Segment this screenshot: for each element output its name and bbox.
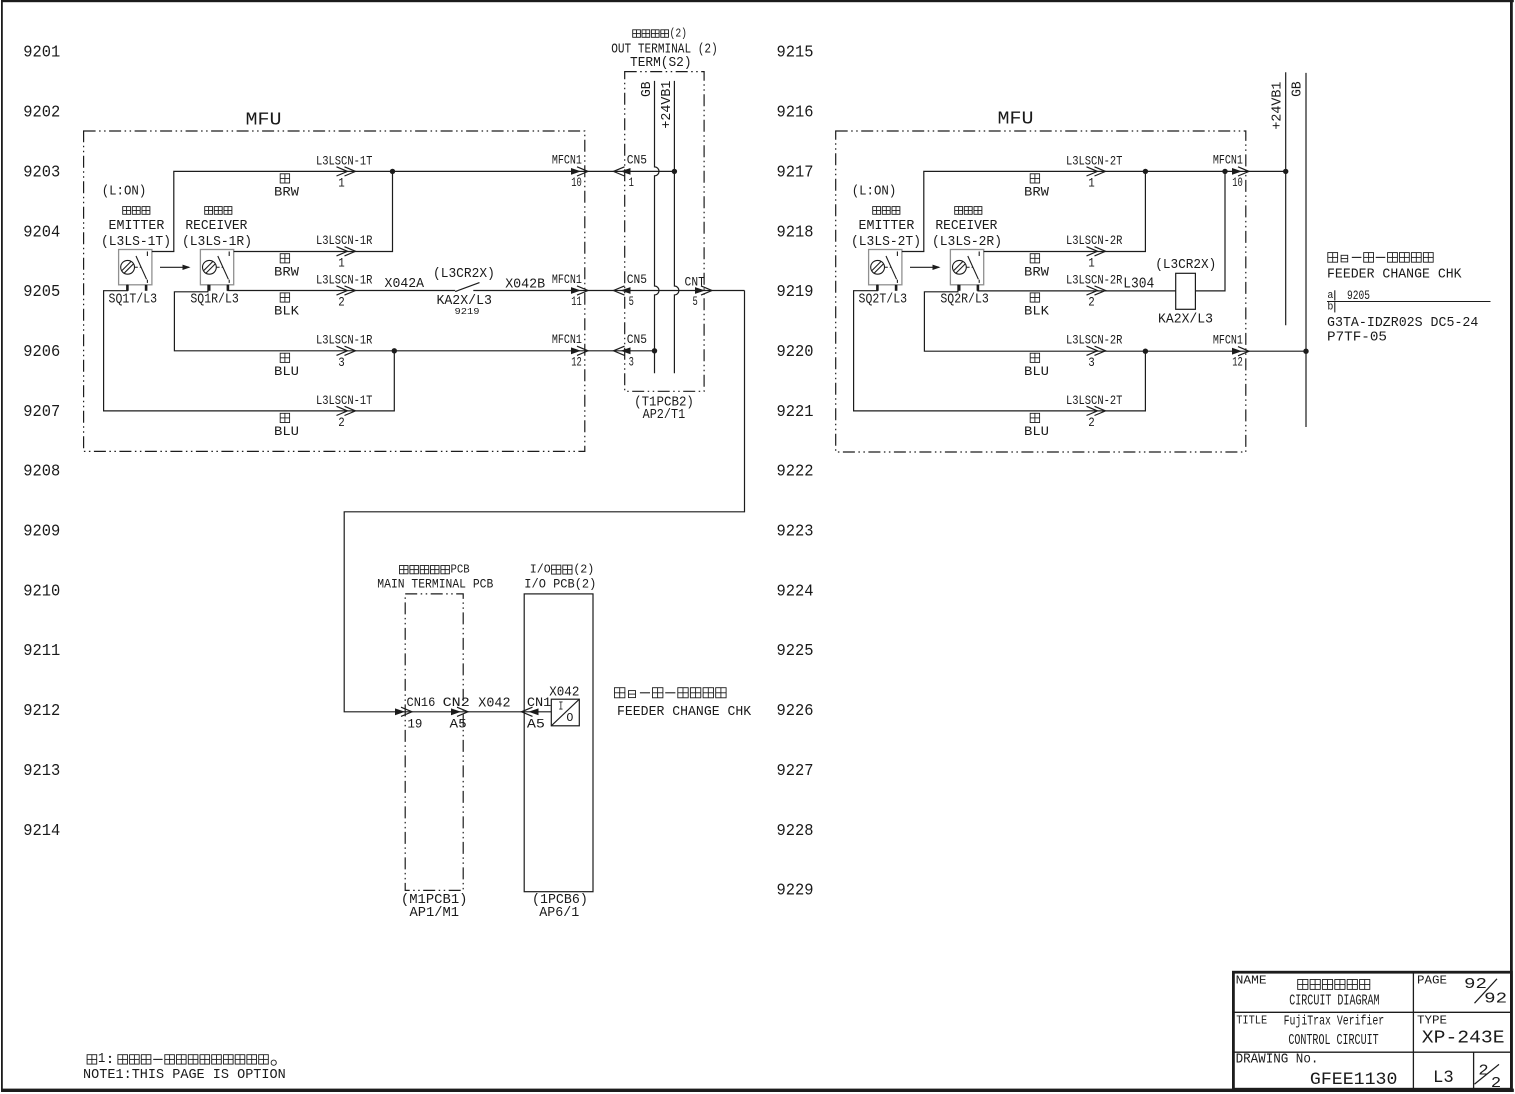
svg-text:PAGE: PAGE bbox=[1417, 974, 1447, 988]
receiver SQ1R/L3 pins bbox=[208, 285, 211, 291]
label X042 (harness) bbox=[478, 696, 510, 712]
title block TITLE cell bbox=[1236, 1014, 1384, 1049]
label (L3CR2X) contact name bbox=[433, 267, 495, 282]
svg-text:(2): (2) bbox=[670, 27, 688, 41]
label KA2X/L3 bbox=[436, 293, 492, 309]
junction node row 9220 on GB line bbox=[1303, 349, 1308, 354]
svg-text:+24VB1: +24VB1 bbox=[1270, 82, 1285, 130]
svg-text:(L3LS-1T): (L3LS-1T) bbox=[101, 234, 171, 250]
svg-text:9201: 9201 bbox=[23, 43, 60, 62]
photoelectric receiver sensor SQ1R/L3 bbox=[200, 250, 233, 291]
svg-text:CN5: CN5 bbox=[627, 153, 647, 168]
label MAIN TERMINAL PCB bbox=[377, 576, 493, 591]
svg-text:(L3CR2X): (L3CR2X) bbox=[433, 267, 495, 282]
I/O port symbol box bbox=[551, 699, 579, 726]
svg-text:L3LSCN-1R: L3LSCN-1R bbox=[316, 233, 373, 248]
label X042 above I/O symbol bbox=[549, 684, 579, 700]
svg-text:9206: 9206 bbox=[23, 342, 60, 361]
svg-text:9205: 9205 bbox=[23, 282, 60, 301]
svg-text:b: b bbox=[1327, 302, 1333, 314]
svg-text:9202: 9202 bbox=[23, 103, 60, 122]
wire colour label BLU (unit2) bbox=[1024, 413, 1049, 439]
svg-text:FEEDER CHANGE CHK: FEEDER CHANGE CHK bbox=[1327, 268, 1462, 283]
svg-text:MFCN1: MFCN1 bbox=[552, 332, 582, 347]
connector CNT pin 5 bbox=[685, 274, 712, 309]
svg-text:1: 1 bbox=[1088, 175, 1095, 190]
svg-text:BRW: BRW bbox=[1024, 264, 1049, 279]
svg-text:(L3CR2X): (L3CR2X) bbox=[1155, 258, 1216, 273]
emitter SQ1T/L3 pins bbox=[126, 285, 129, 291]
wire L3LSCN-1R pin3 (row 9206, BLU) receiver to GB bbox=[174, 285, 654, 351]
svg-text:9211: 9211 bbox=[23, 641, 60, 660]
svg-text:FEEDER CHANGE CHK: FEEDER CHANGE CHK bbox=[617, 705, 752, 720]
svg-text:X042A: X042A bbox=[385, 276, 425, 292]
wire L3LSCN-2R pin3 (row 9220) receiver to GB bbox=[924, 285, 1306, 351]
node row numbers 9201-9214 (left ladder column) bbox=[23, 43, 60, 840]
svg-text:XP-243E: XP-243E bbox=[1422, 1029, 1505, 1049]
receiver SQ2R/L3 body bbox=[950, 250, 983, 285]
wire L3LSCN-2R pin2 (row 9219) receiver to relay coil bbox=[978, 285, 1176, 291]
I/O PCB box AP6/1 bbox=[524, 594, 593, 892]
note 注1：このページはオプションです。 bbox=[87, 1052, 276, 1067]
wire colour label BRW (unit2) bbox=[1024, 174, 1049, 200]
svg-text:MFCN1: MFCN1 bbox=[1213, 333, 1243, 348]
svg-text:BRW: BRW bbox=[274, 185, 299, 200]
title block NAME cell bbox=[1236, 974, 1380, 1010]
net GB vertical bus (right) bbox=[1305, 73, 1307, 427]
label (L3LS-2R) bbox=[932, 234, 1002, 250]
title block TYPE cell XP-243E bbox=[1417, 1014, 1505, 1049]
svg-text:L3LSCN-1R: L3LSCN-1R bbox=[316, 333, 373, 348]
net label L3LSCN-2R 3 (unit2) bbox=[1066, 333, 1123, 370]
OUT TERMINAL box AP2/T1 (dash-dot boundary) bbox=[625, 72, 704, 392]
net label +24VB1 (rotated) bbox=[660, 81, 675, 129]
emitter SQ2T/L3 lens circle bbox=[871, 260, 885, 274]
svg-text:1: 1 bbox=[629, 175, 634, 190]
svg-text:RECEIVER: RECEIVER bbox=[935, 218, 998, 234]
label EMITTER bbox=[109, 218, 165, 234]
label メイン中継PCB bbox=[400, 563, 470, 577]
MFU unit 1 enclosure (dash-dot boundary) bbox=[84, 131, 585, 451]
label SQ1T/L3 bbox=[109, 292, 158, 308]
svg-text:NOTE1:THIS PAGE IS OPTION: NOTE1:THIS PAGE IS OPTION bbox=[83, 1068, 286, 1083]
label P7TF-05 (socket part no.) bbox=[1327, 330, 1387, 345]
wire L3LSCN-1R pin1 (receiver brown) rising to row 9203 bbox=[234, 171, 393, 251]
net +24VB1 vertical bus (left, with hop) bbox=[674, 81, 679, 373]
svg-text:9208: 9208 bbox=[23, 462, 60, 481]
svg-text:CN5: CN5 bbox=[627, 332, 647, 347]
svg-text:12: 12 bbox=[1232, 355, 1243, 370]
label MFU (unit 1) bbox=[246, 111, 282, 131]
net +24VB1 vertical bus (right) bbox=[1285, 72, 1287, 325]
svg-text:L3LSCN-2T: L3LSCN-2T bbox=[1066, 393, 1123, 408]
svg-text:P7TF-05: P7TF-05 bbox=[1327, 330, 1387, 345]
svg-text:CN5: CN5 bbox=[627, 272, 647, 287]
svg-text:CN16: CN16 bbox=[407, 695, 436, 710]
svg-text:5: 5 bbox=[692, 294, 697, 309]
label X042A bbox=[385, 276, 425, 292]
label 投光器 unit2 bbox=[873, 207, 900, 215]
svg-text:MFU: MFU bbox=[246, 111, 282, 131]
title block sheet code L3 bbox=[1433, 1068, 1454, 1088]
svg-text:MAIN TERMINAL PCB: MAIN TERMINAL PCB bbox=[377, 576, 493, 591]
label X042B bbox=[505, 277, 545, 293]
svg-text:L3LSCN-1R: L3LSCN-1R bbox=[316, 272, 373, 287]
connector CN1 pin A5 bbox=[522, 695, 552, 732]
label I/O基板(2) bbox=[530, 563, 595, 577]
label 9219 (coil page ref) bbox=[455, 306, 480, 317]
svg-text:EMITTER: EMITTER bbox=[859, 218, 915, 234]
svg-text:2: 2 bbox=[338, 295, 345, 310]
svg-text:9209: 9209 bbox=[23, 522, 60, 541]
wire L3LSCN-2T pin1 (row 9217) emitter to +24VB1 bbox=[902, 171, 1286, 251]
label FEEDER CHANGE CHK (middle) bbox=[617, 705, 752, 720]
label G3TA-IDZR02S DC5-24 (relay part no.) bbox=[1327, 316, 1478, 331]
connector CN5 pin 3 bbox=[614, 332, 648, 369]
net label L3LSCN-1T 2 bbox=[316, 393, 373, 430]
net label L3LSCN-2T 2 (unit2) bbox=[1066, 393, 1123, 430]
connector CN16 pin 19 bbox=[395, 695, 435, 732]
svg-text:9229: 9229 bbox=[777, 881, 814, 900]
svg-text:1: 1 bbox=[98, 1052, 105, 1067]
svg-text:9226: 9226 bbox=[777, 701, 814, 720]
svg-text:BLK: BLK bbox=[274, 304, 299, 319]
svg-text:1: 1 bbox=[338, 255, 345, 270]
svg-text:9216: 9216 bbox=[777, 103, 814, 122]
svg-text:MFU: MFU bbox=[998, 110, 1034, 130]
svg-text:AP1/M1: AP1/M1 bbox=[410, 905, 460, 921]
svg-text:FujiTrax Verifier: FujiTrax Verifier bbox=[1284, 1015, 1385, 1030]
label 投光器 (emitter jp) bbox=[123, 207, 150, 215]
receiver SQ2R/L3 pins bbox=[958, 285, 961, 291]
emitter SQ2T/L3 pins bbox=[876, 285, 879, 291]
wire L3LSCN-2T pin2 (row 9221) emitter return bbox=[854, 285, 1146, 411]
svg-text:I: I bbox=[558, 700, 563, 714]
title block sheet 2/2 bbox=[1475, 1064, 1502, 1093]
wire L3LSCN-2R pin1 rising to row 9217 bbox=[984, 171, 1146, 251]
svg-text:92: 92 bbox=[1464, 977, 1487, 993]
svg-text:MFCN1: MFCN1 bbox=[1213, 153, 1243, 168]
net label L3LSCN-1T 1 bbox=[316, 153, 373, 190]
svg-text:L3LSCN-1T: L3LSCN-1T bbox=[316, 393, 373, 408]
connector CN5 pin 1 bbox=[614, 153, 648, 190]
net label L3LSCN-1R 2 bbox=[316, 272, 373, 309]
net GB vertical bus (left, with hops) bbox=[655, 81, 660, 373]
svg-text:DRAWING No.: DRAWING No. bbox=[1236, 1053, 1319, 1068]
connector MFCN1 pin 10 (unit2) bbox=[1213, 153, 1249, 190]
svg-text:9225: 9225 bbox=[777, 641, 814, 660]
svg-text:9220: 9220 bbox=[777, 342, 814, 361]
svg-text:X042B: X042B bbox=[505, 277, 545, 293]
emitter SQ1T/L3 lens circle bbox=[121, 260, 135, 274]
svg-text:KA2X/L3: KA2X/L3 bbox=[1158, 311, 1213, 327]
wire L3LSCN-1T pin2 (row 9207, BLU) emitter return bbox=[104, 285, 395, 411]
label SQ1R/L3 bbox=[190, 292, 239, 308]
wire colour label BLU bbox=[274, 413, 299, 439]
svg-text:BLU: BLU bbox=[1024, 364, 1049, 379]
node row numbers 9215-9229 (right ladder column) bbox=[777, 43, 814, 900]
receiver SQ2R/L3 contact bbox=[967, 266, 973, 268]
wire colour label BLU bbox=[274, 353, 299, 379]
svg-text:9207: 9207 bbox=[23, 402, 60, 421]
label (L3LS-2T) bbox=[851, 234, 921, 250]
svg-text:L3LSCN-1T: L3LSCN-1T bbox=[316, 153, 373, 168]
svg-text:MFCN1: MFCN1 bbox=[552, 153, 582, 168]
emitter SQ2T/L3 body bbox=[869, 250, 902, 285]
receiver SQ1R/L3 contact bbox=[217, 266, 223, 268]
junction node row 9220 at x=1145.4 bbox=[1143, 349, 1148, 354]
emitter SQ1T/L3 body bbox=[119, 250, 152, 285]
svg-text:L3LSCN-2R: L3LSCN-2R bbox=[1066, 233, 1123, 248]
label フィーダー挿抜確認 (right) bbox=[1328, 253, 1433, 263]
svg-text:AP6/1: AP6/1 bbox=[539, 905, 579, 921]
net label GB right (rotated) bbox=[1291, 81, 1306, 97]
label 外部中継(2) bbox=[633, 27, 687, 41]
net label L3LSCN-2R 2 (unit2) bbox=[1066, 272, 1123, 309]
svg-text:(L3LS-1R): (L3LS-1R) bbox=[182, 234, 252, 250]
svg-text:1: 1 bbox=[338, 175, 345, 190]
svg-text:9221: 9221 bbox=[777, 402, 814, 421]
svg-text:9228: 9228 bbox=[777, 821, 814, 840]
wire colour label BLK (unit2) bbox=[1024, 293, 1049, 319]
svg-text:A5: A5 bbox=[450, 716, 467, 731]
svg-text:2: 2 bbox=[1491, 1076, 1501, 1092]
photoelectric receiver sensor SQ2R/L3 bbox=[950, 250, 983, 291]
label (1PCB6) bbox=[532, 892, 588, 908]
label MFU (unit 2) bbox=[998, 110, 1034, 130]
svg-text:9223: 9223 bbox=[777, 522, 814, 541]
connector CN5 pin 5 bbox=[614, 272, 648, 309]
svg-text:CNT: CNT bbox=[685, 274, 705, 289]
svg-text:9218: 9218 bbox=[777, 222, 814, 241]
wire colour label BRW bbox=[274, 254, 299, 280]
svg-text:GFEE1130: GFEE1130 bbox=[1310, 1070, 1398, 1090]
svg-text:X042: X042 bbox=[549, 684, 579, 700]
svg-text:CONTROL CIRCUIT: CONTROL CIRCUIT bbox=[1288, 1033, 1378, 1049]
wire colour label BRW bbox=[274, 174, 299, 200]
label AP1/M1 bbox=[410, 905, 460, 921]
wire colour label BLU (unit2) bbox=[1024, 353, 1049, 379]
svg-text:BLU: BLU bbox=[274, 364, 299, 379]
svg-text:9227: 9227 bbox=[777, 761, 814, 780]
connector MFCN1 pin 12 bbox=[552, 332, 588, 369]
svg-text:L3: L3 bbox=[1433, 1068, 1454, 1088]
svg-text:NAME: NAME bbox=[1236, 974, 1267, 988]
svg-text:L3LSCN-2R: L3LSCN-2R bbox=[1066, 272, 1123, 287]
wire L3LSCN-1R pin2 (row 9205, BLK) receiver to contact bbox=[228, 285, 455, 291]
svg-text:(L3LS-2R): (L3LS-2R) bbox=[932, 234, 1002, 250]
svg-text:BLK: BLK bbox=[1024, 304, 1049, 319]
svg-text:AP2/T1: AP2/T1 bbox=[643, 407, 686, 423]
svg-text:9224: 9224 bbox=[777, 581, 814, 600]
svg-text:GB: GB bbox=[640, 81, 655, 97]
svg-text:EMITTER: EMITTER bbox=[109, 218, 165, 234]
label (T1PCB2) bbox=[634, 395, 694, 411]
svg-text:CIRCUIT DIAGRAM: CIRCUIT DIAGRAM bbox=[1289, 993, 1379, 1009]
svg-text:5: 5 bbox=[629, 294, 634, 309]
svg-text:A5: A5 bbox=[527, 716, 545, 731]
wire from relay coil up to row 9217 bbox=[1195, 171, 1225, 291]
svg-text:11: 11 bbox=[571, 294, 582, 309]
svg-text:3: 3 bbox=[1088, 355, 1095, 370]
svg-text:RECEIVER: RECEIVER bbox=[185, 218, 248, 234]
label AP6/1 bbox=[539, 905, 579, 921]
relay contact L3CR2X (KA2X/L3) on row 9205 bbox=[455, 283, 479, 292]
relay contact reference a-side 9205 bbox=[1327, 288, 1491, 303]
label RECEIVER unit2 bbox=[935, 218, 998, 234]
svg-text:X042: X042 bbox=[478, 696, 510, 712]
svg-text:BRW: BRW bbox=[1024, 185, 1049, 200]
label SQ2R/L3 bbox=[940, 292, 989, 308]
svg-text:10: 10 bbox=[571, 175, 582, 190]
net label L3LSCN-2T 1 (unit2) bbox=[1066, 153, 1123, 190]
svg-text:19: 19 bbox=[407, 716, 422, 731]
wire L3LSCN-1T pin1 (row 9203) from emitter to terminal bbox=[152, 171, 675, 251]
photoelectric emitter sensor SQ1T/L3 bbox=[119, 250, 152, 291]
svg-text:9205: 9205 bbox=[1347, 288, 1370, 303]
svg-text:3: 3 bbox=[338, 355, 345, 370]
svg-text:(L:ON): (L:ON) bbox=[852, 183, 897, 199]
MFU unit 2 enclosure (dash-dot boundary) bbox=[836, 131, 1246, 452]
svg-text:PCB: PCB bbox=[450, 563, 469, 577]
svg-text:2: 2 bbox=[1088, 415, 1095, 430]
label RECEIVER bbox=[185, 218, 248, 234]
junction node row 9203 on +24VB1 line bbox=[672, 169, 677, 174]
wire row 9205 from contact to CNT then down to main PCB row 9212 bbox=[344, 291, 744, 712]
junction node on row 9206 at x=394.3 bbox=[392, 348, 397, 353]
svg-text:O: O bbox=[566, 711, 573, 725]
svg-text:I/O PCB(2): I/O PCB(2) bbox=[524, 576, 596, 591]
svg-text:9213: 9213 bbox=[23, 761, 60, 780]
svg-text:BLU: BLU bbox=[274, 424, 299, 439]
svg-text:12: 12 bbox=[571, 354, 582, 369]
title block frame bbox=[1233, 972, 1511, 1089]
net label GB (rotated) bbox=[640, 81, 655, 97]
junction node row 9217 at x=1225 (coil feed) bbox=[1222, 169, 1227, 174]
label 受光器 (receiver jp) bbox=[205, 207, 232, 215]
label (L:ON) unit2 bbox=[852, 183, 897, 199]
svg-text:92: 92 bbox=[1484, 992, 1507, 1008]
svg-text:9219: 9219 bbox=[777, 282, 814, 301]
label (L:ON) bbox=[102, 183, 147, 199]
label (L3LS-1R) bbox=[182, 234, 252, 250]
svg-text:CN2: CN2 bbox=[443, 695, 470, 710]
net label L3LSCN-2R 1 (unit2) bbox=[1066, 233, 1123, 270]
receiver SQ1R/L3 lens circle bbox=[203, 260, 217, 274]
svg-text:TYPE: TYPE bbox=[1417, 1014, 1447, 1028]
connector CN2 pin A5 bbox=[443, 695, 470, 732]
note NOTE1:THIS PAGE IS OPTION bbox=[83, 1068, 286, 1083]
svg-text:2: 2 bbox=[338, 415, 345, 430]
wire colour label BRW (unit2) bbox=[1024, 254, 1049, 280]
svg-text:L3LSCN-2T: L3LSCN-2T bbox=[1066, 153, 1123, 168]
svg-text:10: 10 bbox=[1232, 175, 1243, 190]
wire colour label BLK bbox=[274, 293, 299, 319]
svg-text:BRW: BRW bbox=[274, 264, 299, 279]
svg-text:SQ2T/L3: SQ2T/L3 bbox=[859, 292, 908, 308]
svg-text:SQ2R/L3: SQ2R/L3 bbox=[940, 292, 989, 308]
svg-text:TITLE: TITLE bbox=[1236, 1014, 1267, 1028]
label SQ2T/L3 bbox=[859, 292, 908, 308]
svg-text:9219: 9219 bbox=[455, 306, 480, 317]
label (M1PCB1) bbox=[401, 892, 468, 908]
connector MFCN1 pin 11 bbox=[552, 272, 588, 309]
label (L3CR2X) coil name bbox=[1155, 258, 1216, 273]
net label L3LSCN-1R 3 bbox=[316, 333, 373, 370]
svg-text:a: a bbox=[1327, 290, 1333, 302]
relay contact reference b-side bbox=[1327, 302, 1334, 314]
relay coil KA2X/L3 (L3CR2X) bbox=[1176, 273, 1196, 309]
svg-text:9217: 9217 bbox=[777, 162, 814, 181]
connector MFCN1 pin 12 (unit2) bbox=[1213, 333, 1249, 370]
label (L3LS-1T) bbox=[101, 234, 171, 250]
connector MFCN1 pin 10 bbox=[552, 153, 588, 190]
svg-text:3: 3 bbox=[629, 354, 634, 369]
svg-text:L304: L304 bbox=[1123, 276, 1154, 292]
svg-text:I/O: I/O bbox=[530, 563, 551, 577]
emitter SQ1T/L3 contact bbox=[135, 266, 141, 268]
svg-text:GB: GB bbox=[1291, 81, 1306, 97]
title block PAGE cell 92/92 bbox=[1417, 974, 1507, 1008]
svg-text:G3TA-IDZR02S DC5-24: G3TA-IDZR02S DC5-24 bbox=[1327, 316, 1478, 331]
receiver SQ2R/L3 lens circle bbox=[953, 260, 967, 274]
svg-text:9212: 9212 bbox=[23, 701, 60, 720]
optical beam arrow emitter to receiver bbox=[160, 265, 191, 270]
svg-text:1: 1 bbox=[1088, 255, 1095, 270]
svg-text:SQ1R/L3: SQ1R/L3 bbox=[190, 292, 239, 308]
label TERM(S2) bbox=[630, 56, 692, 71]
svg-text:9214: 9214 bbox=[23, 821, 60, 840]
receiver SQ1R/L3 body bbox=[200, 250, 233, 285]
label 受光器 unit2 bbox=[955, 207, 982, 215]
svg-text:(L3LS-2T): (L3LS-2T) bbox=[851, 234, 921, 250]
junction node on row 9203 at x=392.5 bbox=[390, 169, 395, 174]
svg-text:SQ1T/L3: SQ1T/L3 bbox=[109, 292, 158, 308]
svg-text:L3LSCN-2R: L3LSCN-2R bbox=[1066, 333, 1123, 348]
svg-text:(L:ON): (L:ON) bbox=[102, 183, 147, 199]
label L304 bbox=[1123, 276, 1154, 292]
photoelectric emitter sensor SQ2T/L3 bbox=[869, 250, 902, 291]
net label L3LSCN-1R 1 bbox=[316, 233, 373, 270]
label I/O PCB(2) bbox=[524, 576, 596, 591]
svg-text:+24VB1: +24VB1 bbox=[660, 81, 675, 129]
label AP2/T1 bbox=[643, 407, 686, 423]
svg-text:9203: 9203 bbox=[23, 162, 60, 181]
junction node row 9217 on +24VB1 line bbox=[1283, 169, 1288, 174]
junction node row 9206 on GB line bbox=[652, 348, 657, 353]
optical beam arrow unit2 bbox=[910, 265, 941, 270]
svg-text:MFCN1: MFCN1 bbox=[552, 272, 582, 287]
junction node row 9217 at x=1145.4 bbox=[1143, 169, 1148, 174]
svg-text:(2): (2) bbox=[573, 563, 594, 577]
svg-text:BLU: BLU bbox=[1024, 424, 1049, 439]
title block DRAWING cell GFEE1130 bbox=[1236, 1053, 1398, 1090]
emitter SQ2T/L3 contact bbox=[885, 266, 891, 268]
svg-text:TERM(S2): TERM(S2) bbox=[630, 56, 692, 71]
label KA2X/L3 coil ref bbox=[1158, 311, 1213, 327]
svg-text:9204: 9204 bbox=[23, 222, 60, 241]
label FEEDER CHANGE CHK (right) bbox=[1327, 268, 1462, 283]
svg-text:9222: 9222 bbox=[777, 462, 814, 481]
svg-text:9210: 9210 bbox=[23, 581, 60, 600]
svg-text:9215: 9215 bbox=[777, 43, 814, 62]
net label +24VB1 right (rotated) bbox=[1270, 82, 1285, 130]
label EMITTER unit2 bbox=[859, 218, 915, 234]
svg-text:2: 2 bbox=[1088, 295, 1095, 310]
MAIN TERMINAL PCB box AP1/M1 (dash-dot boundary) bbox=[405, 594, 463, 891]
label OUT TERMINAL (2) bbox=[611, 43, 718, 58]
label フィーダー挿抜確認 (middle) bbox=[615, 688, 727, 698]
